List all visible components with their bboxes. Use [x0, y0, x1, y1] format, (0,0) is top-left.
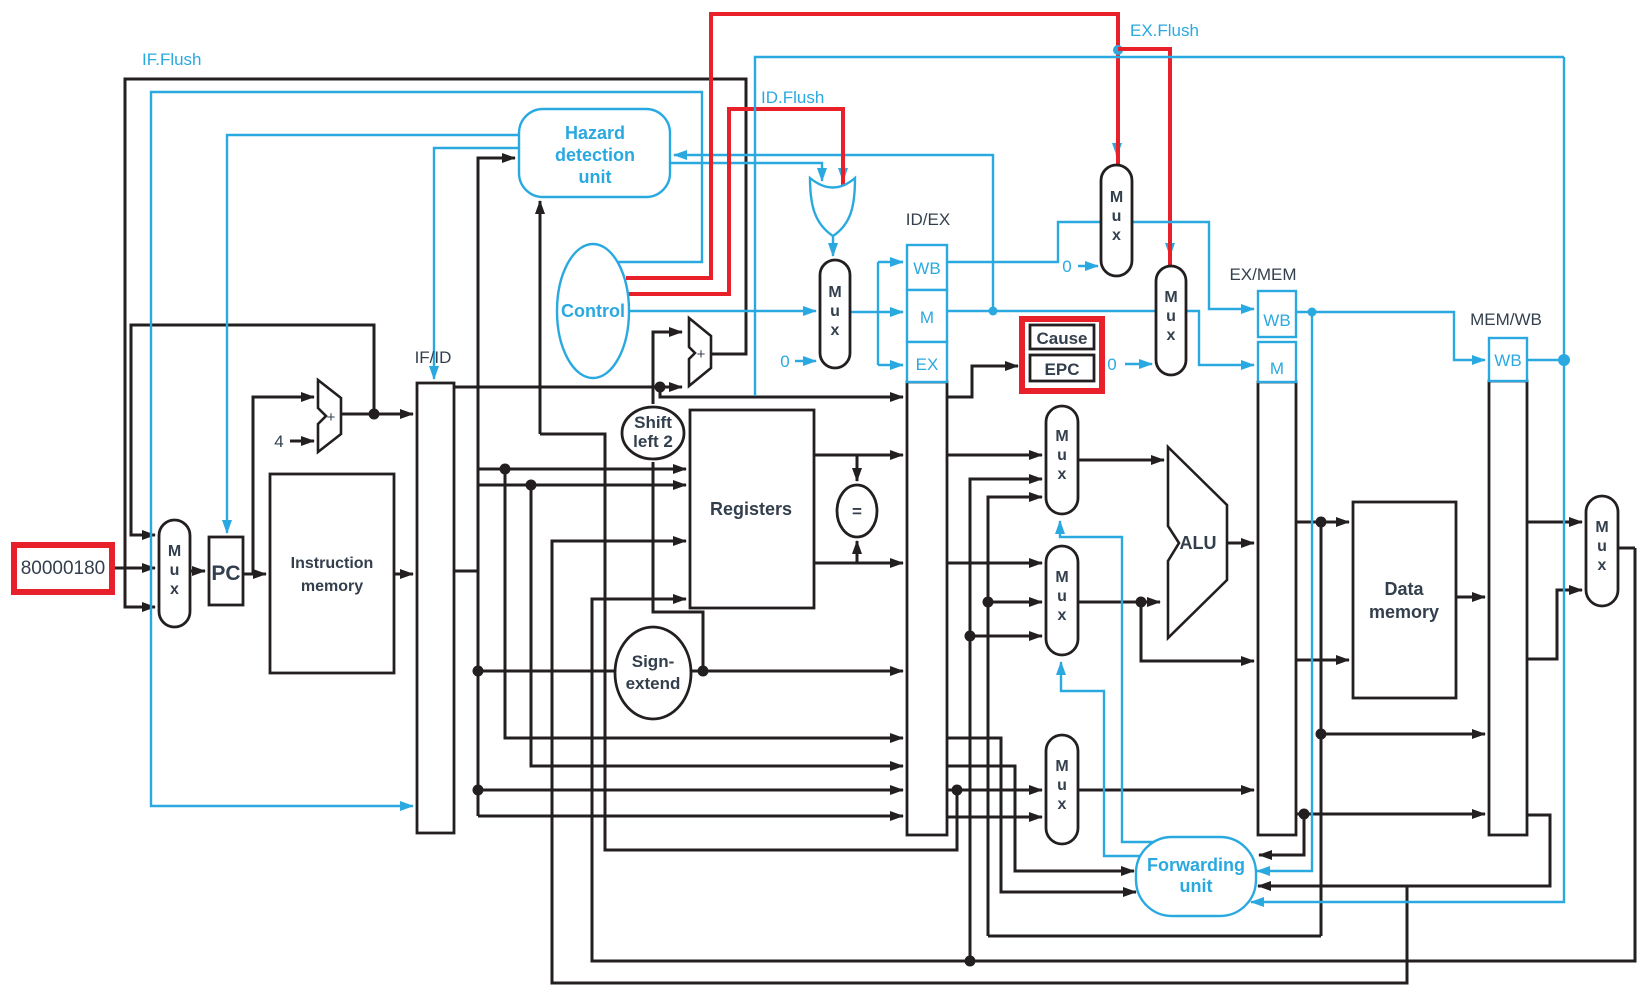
svg-text:x: x [1598, 557, 1607, 574]
wire IF.Flush (cyan) from Control around left side into IF/ID [151, 92, 702, 806]
node EX/MEM forward to mux B [983, 597, 994, 608]
adder PC+4 [318, 380, 341, 452]
wire ID/EX Rd to destination mux input 2 [947, 816, 1042, 819]
wire Control output (cyan) to control zero mux [629, 310, 816, 312]
wire Rd field [15:11] to ID/EX [478, 789, 903, 792]
wire EX.Flush branch arrowhead (cyan) at flush mux 2 [1169, 241, 1171, 256]
register file Registers [690, 410, 814, 608]
wire sign-extend result up to shift left 2 [653, 462, 703, 671]
node PC+4 to ID/EX junction [655, 382, 666, 393]
register EX/MEM M control box [1258, 342, 1296, 382]
wire read data 1 to equality comparator [856, 455, 859, 481]
node MEM/WB WB control junction (cyan) [1558, 354, 1570, 366]
wire RegWrite (cyan) top rail from MEM/WB back to registers [755, 57, 1564, 396]
node write-back data riser junction [965, 956, 976, 967]
svg-text:unit: unit [1180, 876, 1213, 896]
svg-text:Sign-: Sign- [632, 652, 675, 671]
svg-text:u: u [1597, 538, 1607, 555]
svg-text:x: x [1058, 607, 1067, 624]
svg-text:left 2: left 2 [633, 432, 673, 451]
svg-text:EPC: EPC [1045, 360, 1080, 379]
svg-text:x: x [1167, 327, 1176, 344]
svg-text:0: 0 [1107, 355, 1116, 374]
wire PC to instruction memory [243, 573, 266, 576]
node EX.Flush branch (red) [1113, 45, 1123, 55]
wire instruction memory to IF/ID [394, 573, 413, 576]
wire ID/EX read data 2 to ALU mux B [947, 562, 1042, 565]
svg-text:M: M [1055, 428, 1068, 445]
svg-text:x: x [1112, 227, 1121, 244]
svg-text:WB: WB [913, 259, 940, 278]
wire PC+4 value to ID/EX (for EPC) [660, 387, 903, 397]
mux ALU input A [1046, 406, 1078, 514]
wire read data 2 to equality comparator [856, 541, 859, 563]
svg-text:Data: Data [1384, 579, 1424, 599]
wire control zero mux output (cyan) fan to ID/EX WB M EX [850, 262, 903, 365]
unit Sign-extend [615, 627, 691, 719]
wire ID/EX Rt to destination mux input 1 [947, 789, 1042, 792]
wire EX/MEM RegWrite (cyan) down to forwarding unit [1257, 312, 1312, 871]
mux flush 1 EX.Flush [1101, 165, 1132, 276]
svg-text:EX/MEM: EX/MEM [1229, 265, 1296, 284]
wire PCWrite (cyan) hazard detection unit to PC [227, 135, 519, 533]
svg-text:u: u [1057, 447, 1067, 464]
wire destination mux output to EX/MEM [1078, 789, 1254, 792]
adder branch target [689, 318, 711, 386]
node immediate junction [473, 666, 484, 677]
wire zero constant (cyan) to flush mux 2 [1125, 363, 1152, 365]
svg-text:WB: WB [1494, 351, 1521, 370]
svg-text:memory: memory [1369, 602, 1439, 622]
node Rt junction [526, 480, 537, 491]
svg-text:M: M [1595, 519, 1608, 536]
wire ID/EX.MemRead (cyan) up to hazard detection unit [674, 155, 993, 311]
svg-text:u: u [1112, 208, 1122, 225]
svg-text:u: u [1057, 588, 1067, 605]
wire PC+4 loop back to PC mux input 1 [131, 325, 374, 535]
wire EX.Flush (red) from Control over the top to flush mux 1 [626, 14, 1118, 278]
wire Rt field [20:16] to ID/EX [478, 815, 903, 818]
node instruction riser Rd junction [473, 785, 484, 796]
wire write register number line from bottom loop [552, 541, 1407, 983]
wire ID/EX read data 1 to ALU mux A [947, 454, 1042, 457]
svg-text:M: M [828, 284, 841, 301]
node EX/MEM RegWrite tap (cyan) [1308, 308, 1317, 317]
wire ID/EX PC value to EPC register [947, 366, 1018, 397]
memory Instruction memory [270, 474, 394, 673]
memory Data memory [1353, 502, 1456, 698]
wire Rt number down to ID/EX [531, 485, 903, 766]
wire ID/EX Rs to forwarding unit [947, 738, 1136, 892]
wire hazard stall (cyan) to OR gate input 1 [670, 163, 822, 181]
svg-text:M: M [1110, 189, 1123, 206]
svg-text:M: M [1270, 359, 1284, 378]
svg-text:MEM/WB: MEM/WB [1470, 310, 1542, 329]
wire MEM/WB ALU result to write-back mux [1527, 590, 1582, 659]
wire ID/EX WB control (cyan) through flush mux 1 to EX/MEM WB [947, 222, 1254, 309]
svg-text:Forwarding: Forwarding [1147, 855, 1245, 875]
wire OR gate output (cyan) to control zero mux select [832, 236, 834, 256]
svg-text:0: 0 [1062, 257, 1071, 276]
wire EX/MEM ALU result to data memory address [1296, 521, 1349, 524]
register ID/EX EX control box [907, 342, 947, 382]
svg-text:WB: WB [1263, 311, 1290, 330]
svg-text:Cause: Cause [1036, 329, 1087, 348]
mux control zero [820, 260, 850, 368]
svg-text:PC: PC [211, 562, 240, 585]
node write-back forward to mux B [965, 631, 976, 642]
svg-text:Shift: Shift [634, 413, 672, 432]
unit Control [557, 244, 629, 378]
wire read register 2 line [478, 484, 686, 487]
wire write-back value forward riser to ALU muxes [970, 479, 1042, 961]
wire EX/MEM store data to data memory [1296, 659, 1349, 662]
svg-text:0: 0 [780, 352, 789, 371]
svg-text:Instruction: Instruction [291, 555, 374, 572]
wire MEM/WB RegWrite (cyan) down to forwarding unit [1251, 57, 1564, 902]
register EX/MEM WB control box [1258, 291, 1296, 337]
register PC [209, 537, 243, 605]
wire Rs number down to ID/EX [505, 469, 903, 738]
mux flush 2 [1156, 266, 1186, 375]
register EX/MEM [1229, 265, 1296, 835]
wire 80000180 to PC mux input 2 [112, 567, 155, 570]
wire write-back mux output down to bottom rail [1618, 547, 1635, 550]
node sign-extend output junction [698, 666, 709, 677]
node PC+4 junction [369, 409, 380, 420]
svg-text:ALU: ALU [1180, 533, 1217, 553]
wire shift left 2 output to branch adder input 1 [653, 332, 682, 404]
svg-text:x: x [1058, 796, 1067, 813]
register IF/ID [415, 348, 454, 833]
svg-text:IF/ID: IF/ID [415, 348, 452, 367]
mux PC source [159, 520, 190, 627]
svg-text:M: M [1164, 289, 1177, 306]
svg-text:ID/EX: ID/EX [906, 210, 950, 229]
wire ID.Flush arrowhead (cyan) at OR gate input 2 [842, 162, 844, 181]
register ID/EX WB control box [907, 245, 947, 290]
svg-text:4: 4 [274, 432, 283, 451]
wire EX/MEM forward to mux B input 2 [988, 601, 1042, 604]
wire instruction bus riser from IF/ID output [454, 158, 515, 816]
mux destination register [1046, 735, 1078, 844]
svg-text:u: u [830, 303, 840, 320]
wire ID/EX.RegisterRt loop from hazard detection unit around registers to Rt line [540, 434, 957, 850]
node ALU result to MEM/WB branch [1316, 729, 1327, 740]
svg-text:u: u [1057, 777, 1067, 794]
wire IF/ID-write (cyan) hazard detection unit to IF/ID [434, 148, 519, 379]
svg-text:M: M [1055, 569, 1068, 586]
wire ALU mux B output to ALU [1078, 601, 1160, 604]
wire ID.Flush (red) from Control to OR gate input 2 [628, 109, 843, 294]
alu ALU [1168, 447, 1227, 638]
svg-text:memory: memory [301, 578, 363, 595]
svg-text:=: = [852, 502, 862, 521]
svg-text:+: + [697, 346, 706, 363]
register Cause and EPC exception registers [1022, 319, 1102, 391]
wire write-back data bottom loop to registers write data [592, 548, 1635, 961]
wire MEM/WB read data to write-back mux [1527, 521, 1582, 524]
wire ForwardB select (cyan) from forwarding unit to mux B [1061, 662, 1142, 856]
wire instruction tap to hazard detection unit [539, 201, 542, 434]
wire branch-target loop: branch adder output around top border to PC mux input 3 [125, 79, 746, 607]
wire ALU result into MEM/WB [1321, 733, 1485, 736]
wire MEM/WB WB control (cyan) to junction [1527, 359, 1564, 361]
mux write-back [1586, 496, 1618, 606]
node EX/MEM ALU result junction [1316, 517, 1327, 528]
register 80000180 exception address box [14, 545, 112, 592]
gate OR flush [810, 178, 855, 236]
wire ID/EX M control (cyan) through flush mux 2 to EX/MEM M [947, 311, 1254, 365]
register MEM/WB WB control box [1489, 338, 1527, 381]
svg-text:EX: EX [916, 355, 939, 374]
wire PC value up to PC+4 adder input 1 [253, 397, 314, 574]
wire write-back forward to mux B input 3 [970, 635, 1042, 638]
svg-text:IF.Flush: IF.Flush [142, 50, 202, 69]
svg-text:M: M [168, 543, 181, 560]
svg-text:x: x [170, 581, 179, 598]
wire registers read data 2 to ID/EX [814, 562, 903, 565]
wire ID/EX Rt to forwarding unit [947, 766, 1134, 871]
node ID/EX M line tap (cyan) [989, 307, 998, 316]
wire EX.Flush branch (red) to second flush mux [1118, 49, 1170, 266]
wire IF/ID PC+4 output to branch adder input 2 [454, 386, 682, 389]
svg-text:x: x [831, 322, 840, 339]
svg-text:M: M [920, 308, 934, 327]
wire EX/MEM ALU result forward riser to muxes [988, 497, 1042, 936]
svg-text:unit: unit [579, 167, 612, 187]
svg-text:Registers: Registers [710, 499, 792, 519]
wire EX/MEM forward bottom run [988, 935, 1321, 938]
wire ALU output to EX/MEM [1227, 542, 1254, 545]
svg-text:extend: extend [626, 674, 681, 693]
svg-text:Hazard: Hazard [565, 123, 625, 143]
svg-text:Control: Control [561, 301, 625, 321]
register ID/EX M control box [907, 290, 947, 342]
wire immediate [15:0] to sign-extend [478, 670, 616, 673]
wire ALU mux A output to ALU [1078, 459, 1164, 462]
wire read register 1 line [478, 468, 686, 471]
wire EX/MEM WB control (cyan) to MEM/WB [1296, 312, 1485, 360]
mux ALU input B [1046, 546, 1078, 655]
wire EX/MEM ALU result down to MEM/WB and forward run [1320, 522, 1323, 936]
svg-text:M: M [1055, 758, 1068, 775]
wire ForwardA select (cyan) from forwarding unit to mux A [1060, 521, 1157, 842]
wire zero constant (cyan) to flush mux 1 [1078, 265, 1098, 267]
register MEM/WB [1470, 310, 1542, 835]
unit Shift left 2 [622, 407, 684, 459]
wire zero constant (cyan) into control zero mux [795, 360, 816, 362]
svg-text:80000180: 80000180 [21, 558, 106, 579]
node Rs junction [500, 464, 511, 475]
comparator equality [837, 485, 877, 537]
unit Hazard detection unit [519, 109, 670, 197]
wire store data down to EX/MEM [1141, 602, 1254, 661]
svg-text:u: u [1166, 308, 1176, 325]
register ID/EX [906, 210, 950, 835]
wire registers read data 1 to ID/EX [814, 454, 903, 457]
svg-text:x: x [1058, 466, 1067, 483]
node store data branch [1136, 597, 1147, 608]
wire EX/MEM Rd down to forwarding unit [1259, 814, 1304, 855]
wire constant 4 to adder input 2 [290, 440, 314, 443]
wire data memory read data to MEM/WB [1456, 596, 1485, 599]
wire EX/MEM Rd to MEM/WB [1296, 813, 1485, 816]
unit Forwarding unit [1136, 837, 1256, 916]
node EX/MEM Rd branch [1299, 809, 1310, 820]
svg-text:u: u [170, 562, 180, 579]
svg-text:EX.Flush: EX.Flush [1130, 21, 1199, 40]
wire EX.Flush arrowhead (cyan) at flush mux 1 [1116, 141, 1118, 156]
svg-text:detection: detection [555, 145, 635, 165]
wire sign-extend output to ID/EX [691, 670, 903, 673]
wire MEM/WB Rd loop to forwarding unit and write register [1258, 815, 1550, 886]
wire PC+4 adder output to IF/ID [341, 413, 413, 416]
wire PC mux to PC [190, 570, 205, 573]
node destination mux Rt junction [952, 785, 963, 796]
svg-text:ID.Flush: ID.Flush [761, 88, 824, 107]
svg-text:+: + [327, 409, 336, 426]
